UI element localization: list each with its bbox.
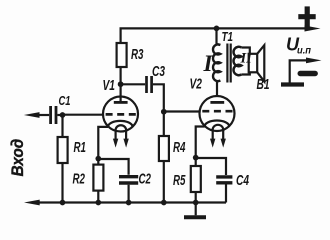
- svg-text:V1: V1: [103, 77, 116, 94]
- transformer T1 primary: [217, 28, 221, 45]
- resistor R5: [195, 158, 197, 166]
- node C1 / grid: [60, 112, 66, 118]
- svg-text:R2: R2: [73, 170, 86, 187]
- chassis bar: [281, 82, 304, 86]
- input terminal arrow bottom: [24, 200, 40, 206]
- node V1 cathode: [95, 156, 101, 162]
- wire V2 cathode to bias node: [196, 127, 205, 158]
- wire V1 cathode to bias node: [98, 127, 108, 159]
- resistor R4: [163, 112, 165, 136]
- svg-text:R5: R5: [173, 172, 186, 189]
- tube V1: [103, 97, 138, 132]
- svg-text:C4: C4: [236, 172, 249, 189]
- node V2 cathode: [193, 155, 199, 161]
- minus terminal: [290, 60, 308, 83]
- transformer core: [226, 44, 228, 83]
- svg-text:C3: C3: [152, 64, 165, 80]
- svg-text:В1: В1: [257, 77, 270, 93]
- resistor R3: [117, 43, 127, 67]
- input terminal arrow top: [24, 112, 40, 118]
- svg-text:I: I: [203, 51, 214, 76]
- capacitor C2: [98, 159, 128, 175]
- resistor R1: [61, 115, 63, 137]
- minus symbol: [300, 71, 315, 76]
- wire secondary to speaker: [241, 48, 250, 54]
- wire grid V1: [63, 114, 104, 116]
- filament leads with arrows: [114, 131, 116, 141]
- svg-text:R4: R4: [173, 139, 186, 156]
- filament leads with arrows: [212, 130, 214, 140]
- terminal arrow + supply: [305, 26, 321, 32]
- svg-text:Вход: Вход: [8, 139, 27, 177]
- svg-text:и.п: и.п: [297, 45, 312, 57]
- node T1 top: [214, 26, 220, 32]
- capacitor C3: [145, 76, 148, 93]
- wire bottom rail: [39, 201, 227, 203]
- svg-text:C1: C1: [59, 94, 71, 108]
- svg-text:R3: R3: [131, 46, 144, 63]
- svg-text:C2: C2: [139, 171, 152, 188]
- svg-text:R1: R1: [74, 139, 87, 156]
- resistor R2: [97, 159, 99, 165]
- speaker B1: [249, 54, 258, 73]
- node V2 grid: [161, 109, 167, 115]
- rail junction nodes: [60, 200, 66, 206]
- capacitor C1: [38, 114, 50, 116]
- capacitor C4: [196, 158, 226, 175]
- wire grid V2: [164, 110, 200, 112]
- svg-text:V2: V2: [190, 76, 203, 93]
- wire top rail: [121, 28, 306, 43]
- plus symbol: [298, 6, 315, 26]
- wire R3 to V1 anode: [119, 67, 121, 102]
- transformer T1 secondary: [233, 47, 241, 75]
- tube V2: [200, 96, 235, 131]
- ground: [195, 203, 197, 216]
- node V1 anode: [118, 81, 124, 87]
- svg-text:T1: T1: [222, 30, 234, 44]
- wire anode V1 to C3: [121, 83, 146, 85]
